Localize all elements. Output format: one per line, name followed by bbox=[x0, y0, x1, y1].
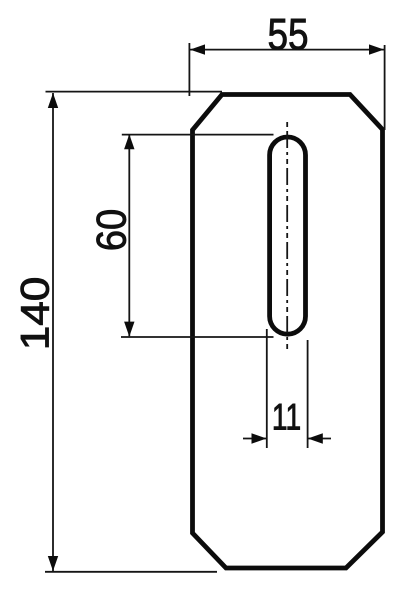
svg-text:140: 140 bbox=[13, 277, 57, 351]
svg-text:11: 11 bbox=[272, 396, 301, 438]
svg-text:55: 55 bbox=[267, 9, 308, 59]
svg-text:60: 60 bbox=[89, 209, 135, 251]
